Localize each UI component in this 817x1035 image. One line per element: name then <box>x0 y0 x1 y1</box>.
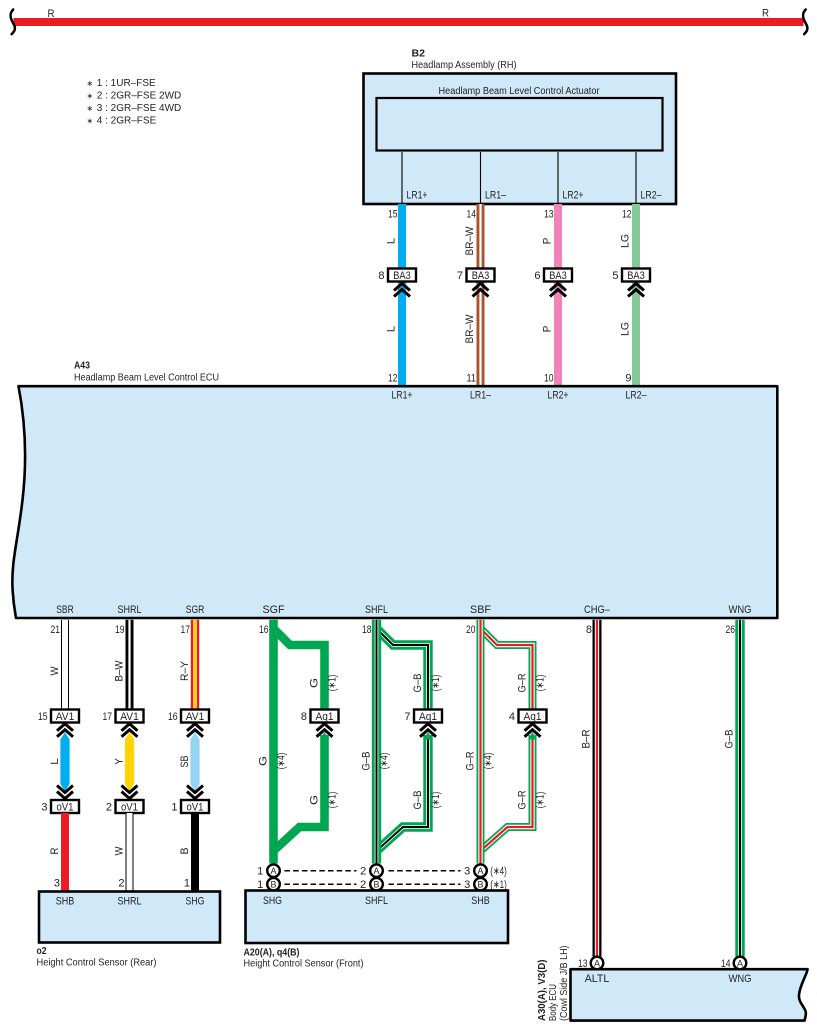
svg-text:SHG: SHG <box>186 896 205 908</box>
svg-text:BA3: BA3 <box>549 270 567 282</box>
svg-text:oV1: oV1 <box>57 801 74 813</box>
svg-text:LR2–: LR2– <box>626 390 648 402</box>
wire Y between AV1 and oV1 <box>125 732 134 791</box>
wire R power bus <box>14 18 804 26</box>
svg-text:oV1: oV1 <box>187 801 204 813</box>
svg-text:∗ 1 : 1UR–FSE: ∗ 1 : 1UR–FSE <box>87 78 157 89</box>
svg-text:(∗1): (∗1) <box>535 675 547 692</box>
svg-text:3: 3 <box>41 801 47 813</box>
svg-text:SHB: SHB <box>56 896 75 908</box>
svg-text:10: 10 <box>544 373 554 385</box>
svg-text:B: B <box>374 880 380 891</box>
wire W from oV1 to sensor <box>126 813 134 892</box>
svg-text:A20(A), q4(B): A20(A), q4(B) <box>244 948 300 959</box>
svg-text:L: L <box>385 238 397 245</box>
svg-text:A: A <box>478 866 485 877</box>
svg-text:BA3: BA3 <box>393 270 411 282</box>
svg-text:Height Control Sensor (Front): Height Control Sensor (Front) <box>244 959 364 970</box>
connector 2 oV1 <box>116 800 144 813</box>
svg-text:B: B <box>478 880 484 891</box>
svg-text:A30(A), V3(D): A30(A), V3(D) <box>537 960 548 1022</box>
svg-text:BR–W: BR–W <box>464 314 476 344</box>
svg-text:G–B: G–B <box>360 752 372 771</box>
wire G–B (*1) branch upper <box>377 629 429 710</box>
svg-text:Headlamp Assembly (RH): Headlamp Assembly (RH) <box>412 60 517 71</box>
svg-text:SHB: SHB <box>471 895 490 907</box>
svg-text:LR1–: LR1– <box>470 390 492 402</box>
svg-text:B–W: B–W <box>113 660 125 682</box>
svg-text:BA3: BA3 <box>627 270 645 282</box>
svg-text:3: 3 <box>464 866 470 878</box>
svg-text:∗ 3 : 2GR–FSE 4WD: ∗ 3 : 2GR–FSE 4WD <box>87 103 182 114</box>
node 1B <box>267 878 280 891</box>
svg-text:R: R <box>49 847 61 854</box>
svg-text:AV1: AV1 <box>56 711 75 723</box>
connector 6 BA3 <box>544 269 572 282</box>
svg-text:8: 8 <box>378 270 384 282</box>
wire G (*1) branch lower <box>275 735 325 850</box>
wire B–W from A43 to connector AV1 <box>126 620 134 710</box>
wire LG from B2 to A43 <box>632 204 640 385</box>
wire internal B2 <box>480 152 482 203</box>
svg-text:LR2+: LR2+ <box>548 390 569 402</box>
svg-text:G–B: G–B <box>724 730 736 749</box>
svg-text:Aq1: Aq1 <box>419 711 437 723</box>
svg-text:G–B: G–B <box>412 674 424 693</box>
svg-text:A43: A43 <box>74 361 90 372</box>
svg-text:(∗4): (∗4) <box>483 753 495 770</box>
svg-text:12: 12 <box>622 209 632 221</box>
svg-text:13: 13 <box>544 209 554 221</box>
wire internal B2 <box>635 152 637 203</box>
svg-text:LR1+: LR1+ <box>407 190 428 202</box>
svg-text:G–R: G–R <box>516 790 528 809</box>
svg-text:L: L <box>385 326 397 333</box>
svg-text:G: G <box>257 756 269 766</box>
node 14 A WNG <box>734 957 747 970</box>
svg-text:9: 9 <box>625 373 631 385</box>
svg-text:SGR: SGR <box>186 604 205 616</box>
node 2A <box>370 864 383 877</box>
node 3A <box>474 864 487 877</box>
svg-text:BA3: BA3 <box>472 270 490 282</box>
svg-text:G–R: G–R <box>464 751 476 770</box>
svg-text:2: 2 <box>118 878 124 890</box>
ECU A43 Headlamp Beam Level Control ECU <box>12 386 777 618</box>
node 2B <box>370 878 383 891</box>
svg-text:3: 3 <box>54 878 60 890</box>
svg-text:1: 1 <box>257 866 263 878</box>
svg-text:(∗4): (∗4) <box>490 866 507 878</box>
svg-text:18: 18 <box>362 624 372 636</box>
svg-text:(∗4): (∗4) <box>379 753 391 770</box>
svg-text:BR–W: BR–W <box>464 226 476 256</box>
component B2 Headlamp Assembly (RH) <box>364 74 677 205</box>
svg-text:19: 19 <box>115 624 125 636</box>
connector 1 oV1 <box>181 800 209 813</box>
svg-text:W: W <box>113 846 125 856</box>
connector 4 Aq1 <box>519 710 547 723</box>
wire R–Y from A43 to connector AV1 <box>191 620 199 710</box>
svg-text:SHRL: SHRL <box>118 604 142 616</box>
wire tip below Aq1 <box>424 732 433 740</box>
svg-text:11: 11 <box>467 373 477 385</box>
connector 15 AV1 <box>51 710 79 723</box>
svg-text:A: A <box>737 958 744 969</box>
node 3B <box>474 878 487 891</box>
wire B-R from A43 CHG- to body ECU <box>593 620 602 957</box>
dashed link B circles 1-2 <box>285 883 357 885</box>
node 1A <box>267 864 280 877</box>
svg-text:Headlamp Beam Level Control EC: Headlamp Beam Level Control ECU <box>74 373 219 384</box>
svg-text:(∗4): (∗4) <box>276 753 288 770</box>
connector 17 AV1 <box>116 710 144 723</box>
svg-text:R: R <box>48 8 55 20</box>
wire L between AV1 and oV1 <box>60 732 69 791</box>
svg-text:SHRL: SHRL <box>118 896 142 908</box>
svg-text:A: A <box>594 958 601 969</box>
connector 7 BA3 <box>467 269 495 282</box>
dashed link A circles 1-2 <box>285 870 357 872</box>
svg-text:P: P <box>541 326 553 333</box>
wire G–B (*4) main from A43 to sensor <box>372 620 381 864</box>
wire P from B2 to A43 <box>554 204 562 385</box>
svg-text:16: 16 <box>259 624 269 636</box>
wire internal B2 <box>557 152 559 203</box>
sensor o2 Height Control Sensor (Rear) <box>39 892 220 943</box>
svg-text:B: B <box>271 880 277 891</box>
svg-text:2: 2 <box>106 801 112 813</box>
svg-text:WNG: WNG <box>729 604 752 616</box>
wire G (*1) branch upper <box>274 629 325 710</box>
svg-text:∗ 4 : 2GR–FSE: ∗ 4 : 2GR–FSE <box>87 116 157 127</box>
svg-text:SGF: SGF <box>263 604 285 616</box>
svg-text:LG: LG <box>619 322 631 336</box>
wire L from B2 to A43 <box>398 204 406 385</box>
svg-text:20: 20 <box>466 624 476 636</box>
svg-text:G–B: G–B <box>412 791 424 810</box>
svg-text:W: W <box>49 666 61 676</box>
svg-text:1: 1 <box>184 878 190 890</box>
svg-text:(Cowl Side J/B LH): (Cowl Side J/B LH) <box>559 946 570 1022</box>
svg-text:LR2–: LR2– <box>641 190 663 202</box>
svg-text:(∗1): (∗1) <box>535 792 547 809</box>
svg-text:(∗1): (∗1) <box>327 792 339 809</box>
svg-text:G: G <box>308 678 320 688</box>
svg-text:∗ 2 : 2GR–FSE 2WD: ∗ 2 : 2GR–FSE 2WD <box>87 91 182 102</box>
svg-text:AV1: AV1 <box>186 711 205 723</box>
svg-text:8: 8 <box>586 624 592 636</box>
svg-text:Aq1: Aq1 <box>524 711 542 723</box>
svg-text:B: B <box>179 848 191 855</box>
svg-text:A: A <box>374 866 381 877</box>
svg-text:Height Control Sensor (Rear): Height Control Sensor (Rear) <box>37 958 157 969</box>
svg-text:L: L <box>49 758 61 765</box>
svg-text:G–R: G–R <box>516 673 528 692</box>
svg-text:SHFL: SHFL <box>365 895 388 907</box>
svg-text:21: 21 <box>51 624 61 636</box>
svg-text:R–Y: R–Y <box>179 660 191 681</box>
svg-text:AV1: AV1 <box>120 711 139 723</box>
svg-text:SHG: SHG <box>263 895 282 907</box>
svg-text:15: 15 <box>388 209 398 221</box>
svg-text:14: 14 <box>467 209 477 221</box>
svg-text:Y: Y <box>113 758 125 765</box>
svg-text:17: 17 <box>103 711 113 723</box>
svg-text:P: P <box>541 238 553 245</box>
svg-text:o2: o2 <box>37 946 47 957</box>
svg-text:LR1+: LR1+ <box>392 390 413 402</box>
wire B from oV1 to sensor <box>191 813 199 892</box>
svg-text:oV1: oV1 <box>121 801 138 813</box>
connector 16 AV1 <box>181 710 209 723</box>
svg-text:2: 2 <box>360 866 366 878</box>
svg-text:7: 7 <box>404 711 410 723</box>
svg-text:(∗1): (∗1) <box>430 792 442 809</box>
svg-text:LG: LG <box>619 234 631 248</box>
svg-text:15: 15 <box>38 711 48 723</box>
wire internal B2 <box>401 152 403 203</box>
svg-text:16: 16 <box>168 711 178 723</box>
svg-text:4: 4 <box>509 711 515 723</box>
dashed link B circles 2-3 <box>389 883 461 885</box>
dashed link A circles 2-3 <box>389 870 461 872</box>
svg-text:ALTL: ALTL <box>585 973 610 985</box>
svg-text:A: A <box>271 866 278 877</box>
wire G–B (*1) branch lower <box>378 735 428 850</box>
svg-text:Body ECU: Body ECU <box>548 984 559 1021</box>
wire BR–W from B2 to A43 <box>477 204 485 385</box>
break symbol left <box>11 10 15 35</box>
wire G–R (*1) branch lower <box>482 735 533 850</box>
svg-text:(∗1): (∗1) <box>327 675 339 692</box>
wire W from A43 to connector AV1 <box>61 620 69 710</box>
svg-text:Aq1: Aq1 <box>316 711 334 723</box>
break symbol right <box>803 10 807 35</box>
wire R from oV1 to sensor <box>61 813 69 892</box>
svg-text:6: 6 <box>534 270 540 282</box>
svg-text:5: 5 <box>612 270 618 282</box>
svg-text:B–R: B–R <box>581 729 593 748</box>
svg-text:13: 13 <box>578 958 588 970</box>
connector 5 BA3 <box>622 269 650 282</box>
svg-text:SBR: SBR <box>56 604 74 616</box>
svg-text:1: 1 <box>171 801 177 813</box>
svg-text:Headlamp Beam Level Control Ac: Headlamp Beam Level Control Actuator <box>439 86 601 97</box>
svg-text:CHG–: CHG– <box>584 604 611 616</box>
svg-text:12: 12 <box>388 373 398 385</box>
connector 8 Aq1 <box>311 710 339 723</box>
connector 7 Aq1 <box>414 710 442 723</box>
svg-text:8: 8 <box>301 711 307 723</box>
svg-text:B2: B2 <box>412 49 426 60</box>
svg-text:LR2+: LR2+ <box>563 190 584 202</box>
svg-text:WNG: WNG <box>729 973 752 985</box>
wire G–R (*1) branch upper <box>481 629 533 710</box>
wire tip below Aq1 <box>320 732 329 740</box>
svg-text:SHFL: SHFL <box>365 604 388 616</box>
svg-text:14: 14 <box>721 958 731 970</box>
svg-text:7: 7 <box>457 270 463 282</box>
node 13 A ALTL <box>591 957 604 970</box>
wire tip below Aq1 <box>528 732 537 740</box>
connector 3 oV1 <box>51 800 79 813</box>
svg-text:17: 17 <box>181 624 191 636</box>
wire SB between AV1 and oV1 <box>190 732 199 791</box>
wire G–R (*4) main from A43 to sensor <box>477 620 485 864</box>
svg-text:SBF: SBF <box>470 604 491 616</box>
svg-text:R: R <box>762 8 769 20</box>
sensor A20(A), q4(B) Height Control Sensor (Front) <box>246 891 509 944</box>
svg-text:26: 26 <box>726 624 736 636</box>
svg-text:LR1–: LR1– <box>485 190 507 202</box>
svg-text:G: G <box>308 795 320 805</box>
wire G-B from A43 WNG to body ECU <box>735 620 744 957</box>
ECU A30(A), V3(D) Body ECU (Cowl Side J/B LH) <box>571 969 808 1020</box>
svg-text:SB: SB <box>179 756 191 768</box>
svg-text:(∗1): (∗1) <box>430 675 442 692</box>
wire G (*4) main from A43 to sensor <box>269 620 278 864</box>
connector 8 BA3 <box>388 269 416 282</box>
